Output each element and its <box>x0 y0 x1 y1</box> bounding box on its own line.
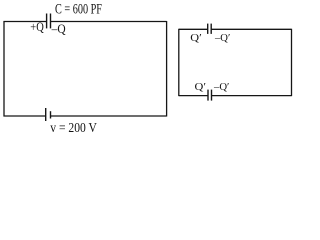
svg-text:–Q′: –Q′ <box>214 32 230 44</box>
wire right-loop top-left segment <box>179 28 208 30</box>
svg-text:Q′: Q′ <box>190 32 202 44</box>
wire right-loop left side <box>178 29 180 96</box>
svg-text:v = 200 V: v = 200 V <box>50 120 97 135</box>
wire right-loop bottom-right segment <box>212 95 292 97</box>
svg-text:–Q: –Q <box>51 21 66 36</box>
battery V1 plates <box>46 108 51 121</box>
svg-text:+Q: +Q <box>30 19 44 34</box>
wire left-loop bottom-right segment <box>51 115 167 117</box>
svg-text:C = 600 PF: C = 600 PF <box>55 2 102 18</box>
wire left-loop right side <box>166 21 168 117</box>
wire left-loop bottom-left segment <box>4 115 46 117</box>
capacitor C1 plates <box>47 14 51 29</box>
svg-text:–Q′: –Q′ <box>213 81 229 93</box>
wire left-loop left side <box>3 21 5 117</box>
wire right-loop bottom-left segment <box>179 95 208 97</box>
wire left-loop top-right segment <box>51 21 167 23</box>
capacitor C3 plates <box>208 90 212 101</box>
wire left-loop top-left segment <box>4 21 47 23</box>
svg-text:Q′: Q′ <box>195 81 207 93</box>
wire right-loop right side <box>291 29 293 96</box>
wire right-loop top-right segment <box>211 28 291 30</box>
capacitor C2 plates <box>208 24 212 34</box>
